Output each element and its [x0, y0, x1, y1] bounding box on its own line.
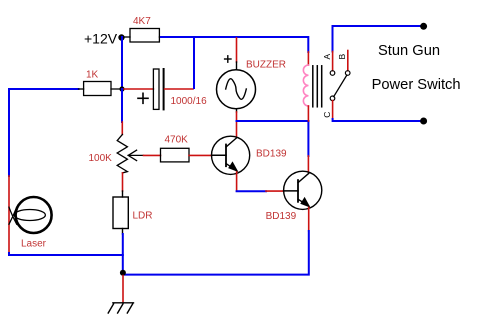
svg-text:C: C [322, 112, 332, 118]
LDR R4 [113, 173, 128, 234]
wire blue switch A to top terminal [333, 26, 421, 52]
svg-text:B: B [337, 54, 347, 60]
node terminal dot top right [420, 23, 427, 30]
wire red switch B stub [347, 51, 349, 71]
label pin A [322, 54, 332, 60]
wire blue switch C to bottom terminal [333, 119, 421, 121]
wire blue bottom rail [123, 231, 309, 275]
laser LA1 [9, 197, 52, 233]
wire red buzzer bottom to Q1 collector [236, 112, 238, 136]
wire red Q1 emitter down [236, 172, 238, 191]
svg-text:1000/16: 1000/16 [171, 96, 208, 107]
node bottom junction dot [120, 270, 126, 276]
svg-text:Laser: Laser [21, 239, 47, 250]
transformer core [313, 66, 322, 107]
wire red to pot top [121, 122, 123, 134]
switch SW1 pin C [330, 96, 335, 101]
wire red node to capacitor [124, 88, 153, 90]
wire red capacitor to corner [165, 88, 193, 90]
transistor Q2 BD139 [284, 171, 322, 209]
wire red left vertical through laser [8, 176, 10, 253]
transistor Q1 BD139 [212, 136, 250, 174]
svg-text:100K: 100K [89, 153, 113, 164]
svg-text:470K: 470K [165, 135, 189, 146]
label pin B [337, 54, 347, 60]
inductor L1 transformer primary coil [303, 65, 308, 106]
wire top rail blue from 4K7 to transformer [161, 37, 308, 52]
svg-text:+12V: +12V [84, 31, 118, 47]
wire red buzzer plus stub [236, 38, 238, 62]
wire blue pot feed from node [121, 89, 123, 122]
node +12V junction dot [118, 34, 124, 40]
svg-text:Power Switch: Power Switch [372, 77, 461, 93]
wire red switch A stub [332, 52, 334, 71]
switch SW1 pin A [330, 71, 335, 76]
wire red Q2 emitter down [308, 208, 310, 232]
svg-text:1K: 1K [86, 70, 99, 81]
potentiometer VR1 100K [117, 134, 143, 173]
svg-text:LDR: LDR [133, 211, 153, 222]
wire blue LDR to bottom node [122, 234, 124, 273]
label pin C [322, 112, 332, 118]
wire red to Q2 base [266, 190, 284, 192]
wire bottom left rail [9, 253, 123, 255]
wire +12V vertical down to 1K node [121, 37, 123, 89]
resistor R2 1K [79, 82, 120, 96]
svg-text:BUZZER: BUZZER [246, 60, 286, 71]
switch SW1 pin B [345, 71, 350, 76]
svg-text:4K7: 4K7 [133, 16, 151, 27]
capacitor C1 1000/16 electrolytic [138, 69, 164, 109]
svg-text:BD139: BD139 [266, 211, 297, 222]
svg-text:Stun Gun: Stun Gun [378, 43, 440, 59]
wire red to Q2 collector [307, 156, 309, 172]
resistor R3 470K [161, 148, 190, 162]
switch lever [334, 75, 347, 96]
ground [108, 303, 133, 313]
wire blue cap corner up to top rail [193, 37, 195, 88]
resistor R1 4K7 [124, 29, 161, 43]
node 1K/cap junction dot [119, 86, 124, 91]
wire blue collector rail right [237, 120, 309, 122]
svg-text:BD139: BD139 [256, 149, 287, 160]
wire red node to ground [122, 276, 124, 303]
wire red transformer primary top stub [307, 52, 309, 65]
buzzer plus sign [225, 56, 231, 62]
node terminal dot bottom right [420, 118, 427, 125]
wire blue down to Q2 collector [307, 121, 309, 156]
svg-text:A: A [322, 54, 332, 60]
wire left rail from 1K to laser bottom [9, 89, 79, 176]
wire red 470K to Q1 base [189, 154, 212, 156]
buzzer B1 [217, 62, 256, 112]
wire blue emitter to Q2 base [237, 190, 266, 192]
wire red transformer primary bottom stub [307, 106, 309, 121]
wire red pot wiper to 470K [144, 154, 161, 156]
wire red switch C stub [332, 101, 334, 119]
